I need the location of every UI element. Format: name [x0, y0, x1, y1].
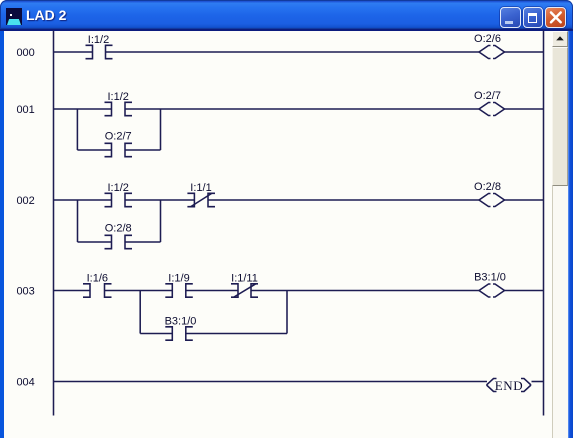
- scrollbar track: [552, 31, 568, 438]
- right power rail: [543, 31, 545, 416]
- branch 001 bottom wire right: [125, 149, 161, 151]
- slash I:1/1: [191, 194, 212, 207]
- rung 003 wire middle: [251, 290, 479, 292]
- scrollbar thumb: [552, 47, 568, 186]
- svg-text:O:2/7: O:2/7: [105, 131, 132, 143]
- branch 002 bottom wire left: [78, 241, 112, 243]
- contact O:2/8 rung 002 branch: [105, 235, 133, 248]
- rung 000 wire left: [54, 51, 93, 53]
- rung 002 wire left: [54, 199, 112, 201]
- svg-text:I:1/11: I:1/11: [231, 273, 258, 285]
- coil B3:1/0: [479, 284, 505, 297]
- svg-text:001: 001: [16, 104, 34, 116]
- slash I:1/11: [234, 284, 256, 297]
- contact B3:1/0 branch: [165, 327, 193, 340]
- left power rail: [53, 31, 55, 416]
- contact O:2/7 rung 001 branch: [105, 143, 133, 156]
- svg-text:B3:1/0: B3:1/0: [165, 316, 197, 328]
- svg-text:I:1/2: I:1/2: [107, 91, 128, 103]
- scrollbar up button: [552, 31, 568, 47]
- svg-text:B3:1/0: B3:1/0: [474, 272, 506, 284]
- branch 002 bottom wire right: [125, 241, 161, 243]
- close button: [545, 7, 566, 28]
- svg-text:O:2/7: O:2/7: [474, 90, 501, 102]
- contact I:1/11 NC: [231, 284, 258, 297]
- contact I:1/2 rung 002: [105, 193, 133, 206]
- svg-text:I:1/1: I:1/1: [190, 182, 211, 194]
- END coil brackets: [487, 379, 532, 392]
- scrollbar up arrow glyph: [552, 31, 568, 47]
- rung 004 wire left: [54, 381, 488, 383]
- svg-text:004: 004: [16, 377, 34, 389]
- branch 003 bottom wire left: [140, 333, 172, 335]
- branch 002 right vertical: [160, 200, 162, 242]
- svg-text:O:2/6: O:2/6: [474, 33, 501, 45]
- coil O:2/6: [479, 46, 505, 59]
- rung 003 wire left: [54, 290, 91, 292]
- svg-text:000: 000: [16, 47, 34, 59]
- rung 001 wire left: [54, 108, 112, 110]
- contact I:1/1 NC rung 002: [187, 193, 215, 206]
- window title bar: [0, 0, 573, 29]
- rung 001 wire middle: [125, 108, 479, 110]
- rung 002 wire middle: [208, 199, 479, 201]
- svg-text:END: END: [495, 378, 524, 393]
- branch 003 bottom wire right: [186, 333, 287, 335]
- svg-text:I:1/6: I:1/6: [87, 273, 108, 285]
- branch 002 left vertical: [77, 200, 79, 242]
- contact I:1/2 rung 001: [105, 102, 133, 115]
- dark line under title: [0, 29, 573, 31]
- window icon: [6, 8, 22, 25]
- coil O:2/8: [479, 194, 505, 207]
- svg-text:002: 002: [16, 195, 34, 207]
- branch 001 left vertical: [76, 109, 78, 150]
- contact I:1/9: [165, 284, 193, 297]
- rung 000 wire middle: [106, 51, 480, 53]
- branch 003 left vertical: [139, 291, 141, 334]
- svg-text:I:1/9: I:1/9: [168, 273, 189, 285]
- rung 000 wire right: [505, 51, 544, 53]
- svg-text:I:1/2: I:1/2: [107, 182, 128, 194]
- svg-text:I:1/2: I:1/2: [88, 34, 109, 46]
- contact I:1/6: [83, 284, 112, 297]
- branch 001 bottom wire left: [77, 149, 111, 151]
- rung 001 wire right: [505, 108, 544, 110]
- minimize button: [500, 7, 521, 28]
- rung 002 wire right: [505, 199, 544, 201]
- left window border: [0, 31, 4, 438]
- rung 003 wire right: [505, 290, 544, 292]
- rung 003 wire to I:1/11: [186, 290, 238, 292]
- contact I:1/2 rung 000: [86, 45, 113, 58]
- rung 004 wire right: [532, 381, 544, 383]
- svg-text:003: 003: [16, 286, 34, 298]
- coil O:2/7: [479, 103, 505, 116]
- right window border: [568, 31, 573, 438]
- svg-text:O:2/8: O:2/8: [474, 181, 501, 193]
- svg-text:O:2/8: O:2/8: [105, 223, 132, 235]
- maximize button: [523, 7, 544, 28]
- rung 003 wire to I:1/9: [105, 290, 173, 292]
- title text: [26, 7, 66, 23]
- rung 002 wire to NC contact: [125, 199, 194, 201]
- branch 003 right vertical: [286, 291, 288, 334]
- branch 001 right vertical: [160, 109, 162, 150]
